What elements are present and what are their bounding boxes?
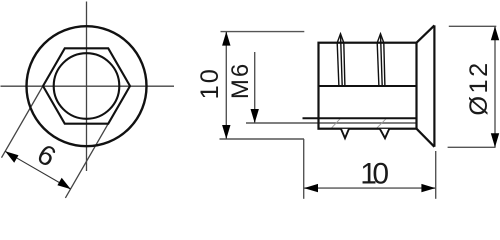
svg-text:10: 10 [360, 158, 388, 191]
svg-text:Ø12: Ø12 [465, 60, 493, 115]
svg-text:10: 10 [196, 67, 224, 99]
svg-text:M6: M6 [227, 62, 254, 99]
